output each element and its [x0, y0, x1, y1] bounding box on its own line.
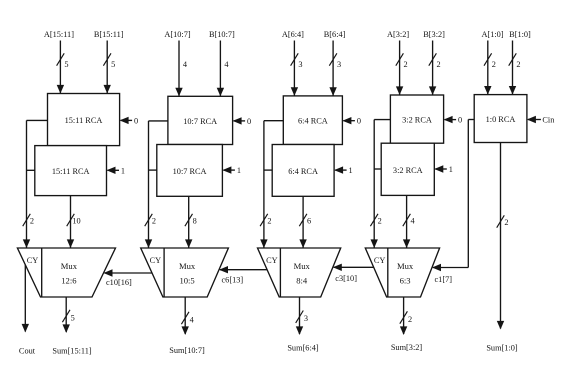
wire sum bundle (4 bits) from RCA bottoms down to Mux M4: [403, 195, 416, 248]
mux M4 "Mux 6:3" with CY section: [365, 248, 439, 297]
constant 1 carry-in arrow into U1b: [107, 166, 126, 175]
wire Sum[1:0] output of RCA U5 (2 bits): [497, 143, 509, 330]
svg-text:5: 5: [64, 60, 68, 69]
wire carry-select c6[13] into Mux M2 right side: [219, 266, 267, 285]
svg-text:B[15:11]: B[15:11]: [94, 30, 124, 39]
svg-text:A[3:2]: A[3:2]: [387, 30, 409, 39]
svg-text:1: 1: [121, 166, 125, 175]
svg-text:c10[16]: c10[16]: [106, 278, 132, 287]
RCA U4a "3:2 RCA" (carry-in 0 branch): [390, 95, 443, 143]
svg-text:2: 2: [516, 60, 520, 69]
node B[10:7] input label (col 2): [209, 30, 235, 39]
svg-text:2: 2: [404, 60, 408, 69]
wire carry-out of U5 (c1[7]) from left edge down toward Mux M4: [468, 120, 474, 268]
svg-text:3: 3: [298, 60, 302, 69]
wire carry bundle (2 bits) from U4a/U4b left edges down to Mux M4 CY input: [370, 120, 390, 248]
svg-text:2: 2: [378, 217, 382, 226]
node B[6:4] input label (col 3): [324, 30, 346, 39]
RCA U1b "15:11 RCA" (carry-in 1 branch): [35, 146, 107, 196]
svg-text:A[10:7]: A[10:7]: [164, 30, 191, 39]
svg-text:12:6: 12:6: [61, 276, 77, 286]
node Sum[15:11] output label: [52, 347, 92, 356]
svg-text:2: 2: [504, 218, 508, 227]
node Sum[10:7] output label: [169, 346, 205, 355]
svg-text:B[6:4]: B[6:4]: [324, 30, 346, 39]
wire sum bundle (6 bits) from RCA bottoms down to Mux M3: [299, 196, 311, 248]
RCA U3b "6:4 RCA" (carry-in 1 branch): [272, 145, 334, 197]
svg-text:A[1:0]: A[1:0]: [481, 30, 503, 39]
svg-text:Mux: Mux: [294, 261, 311, 271]
node A[1:0] input label (col 5): [481, 30, 503, 39]
svg-text:6:4 RCA: 6:4 RCA: [288, 167, 318, 176]
constant 1 carry-in arrow into U2b: [222, 166, 241, 175]
svg-text:Sum[10:7]: Sum[10:7]: [169, 346, 205, 355]
svg-text:Sum[6:4]: Sum[6:4]: [287, 344, 319, 353]
wire carry bundle (2 bits) from U2a/U2b left edges down to Mux M2 CY input: [145, 121, 168, 248]
svg-text:1: 1: [449, 165, 453, 174]
wire A[10:7] into upper RCA, bus width 4: [175, 41, 188, 97]
wire A[6:4] into upper RCA, bus width 3: [291, 41, 303, 96]
svg-text:Mux: Mux: [179, 261, 196, 271]
svg-text:1: 1: [237, 166, 241, 175]
svg-text:2: 2: [437, 60, 441, 69]
svg-text:CY: CY: [266, 256, 278, 265]
wire A[15:11] into upper RCA, bus width 5: [57, 41, 69, 94]
wire B[3:2] into upper RCA, bus width 2: [429, 41, 441, 96]
svg-text:B[10:7]: B[10:7]: [209, 30, 235, 39]
constant 0 carry-in arrow into U4a: [444, 116, 463, 125]
svg-text:0: 0: [247, 117, 251, 126]
svg-text:3:2 RCA: 3:2 RCA: [393, 166, 423, 175]
svg-text:CY: CY: [27, 256, 39, 265]
node B[15:11] input label (col 1): [94, 30, 124, 39]
svg-text:c1[7]: c1[7]: [435, 275, 453, 284]
svg-text:5: 5: [71, 314, 75, 323]
svg-text:Sum[3:2]: Sum[3:2]: [391, 343, 423, 352]
svg-text:B[3:2]: B[3:2]: [423, 30, 445, 39]
wire B[10:7] into upper RCA, bus width 4: [217, 41, 230, 97]
wire carry bundle (2 bits) from U3a/U3b left edges down to Mux M3 CY input: [260, 121, 283, 248]
svg-text:10:7 RCA: 10:7 RCA: [173, 167, 207, 176]
wire Sum[6:4] output of Mux M3 (3 bits): [296, 297, 308, 335]
svg-text:3:2 RCA: 3:2 RCA: [402, 116, 432, 125]
svg-text:15:11 RCA: 15:11 RCA: [65, 116, 103, 125]
svg-text:6:3: 6:3: [400, 276, 411, 286]
svg-text:2: 2: [492, 60, 496, 69]
mux M3 "Mux 8:4" with CY section: [258, 248, 341, 297]
svg-text:Cin: Cin: [542, 116, 555, 125]
RCA U4b "3:2 RCA" (carry-in 1 branch): [381, 143, 434, 195]
constant 0 carry-in arrow into U3a: [342, 117, 361, 126]
svg-text:0: 0: [458, 116, 462, 125]
svg-text:10: 10: [72, 217, 80, 226]
mux M1 "Mux 12:6" with CY section: [17, 248, 115, 297]
svg-text:Sum[1:0]: Sum[1:0]: [486, 344, 518, 353]
RCA U1a "15:11 RCA" (carry-in 0 branch): [48, 94, 120, 146]
node Sum[6:4] output label: [287, 344, 319, 353]
svg-text:1: 1: [349, 166, 353, 175]
svg-text:3: 3: [337, 60, 341, 69]
svg-text:Mux: Mux: [61, 261, 78, 271]
svg-text:Sum[15:11]: Sum[15:11]: [52, 347, 92, 356]
svg-text:CY: CY: [374, 256, 386, 265]
constant 0 carry-in arrow into U1a: [120, 116, 139, 125]
svg-text:5: 5: [111, 60, 115, 69]
wire carry-select c1[7] into Mux M4 right side: [432, 264, 468, 284]
svg-text:0: 0: [357, 117, 361, 126]
wire Sum[15:11] output of Mux M1 (5 bits): [62, 297, 74, 333]
svg-text:Mux: Mux: [397, 261, 414, 271]
svg-text:0: 0: [134, 116, 138, 125]
svg-text:8: 8: [193, 217, 197, 226]
mux M2 "Mux 10:5" with CY section: [141, 248, 229, 297]
svg-text:A[15:11]: A[15:11]: [44, 30, 74, 39]
wire carry bundle (2 bits) from U1a/U1b left edges down to Mux M1 CY input: [23, 120, 48, 248]
wire Sum[3:2] output of Mux M4 (2 bits): [400, 297, 412, 335]
constant 0 carry-in arrow into U2a: [233, 117, 252, 126]
svg-text:2: 2: [30, 217, 34, 226]
node A[6:4] input label (col 3): [282, 30, 304, 39]
RCA U5 "1:0 RCA": [474, 95, 527, 143]
svg-text:4: 4: [224, 60, 229, 69]
node A[10:7] input label (col 2): [164, 30, 191, 39]
RCA U2b "10:7 RCA" (carry-in 1 branch): [157, 145, 223, 197]
node Sum[1:0] output label: [486, 344, 518, 353]
wire sum bundle (10 bits) from RCA bottoms down to Mux M1: [67, 196, 81, 248]
node A[15:11] input label (col 1): [44, 30, 74, 39]
node Cout output label: [19, 347, 36, 356]
wire B[6:4] into upper RCA, bus width 3: [329, 41, 341, 96]
wire Cout from Mux M1 CY output: [22, 265, 29, 333]
node Cin input arrow into RCA U5: [527, 116, 555, 125]
svg-text:6: 6: [307, 217, 311, 226]
svg-text:2: 2: [152, 217, 156, 226]
wire Sum[10:7] output of Mux M2 (4 bits): [181, 297, 194, 335]
svg-text:c3[10]: c3[10]: [335, 274, 357, 283]
constant 1 carry-in arrow into U3b: [334, 166, 353, 175]
svg-text:10:7 RCA: 10:7 RCA: [183, 117, 217, 126]
svg-text:3: 3: [304, 314, 308, 323]
wire sum bundle (8 bits) from RCA bottoms down to Mux M2: [185, 196, 197, 248]
wire B[1:0] into RCA U5, bus width 2: [509, 41, 521, 95]
svg-text:Cout: Cout: [19, 347, 36, 356]
svg-text:CY: CY: [150, 256, 162, 265]
svg-text:8:4: 8:4: [296, 276, 308, 286]
node A[3:2] input label (col 4): [387, 30, 409, 39]
wire carry-select c10[16] into Mux M1 right side: [104, 269, 153, 287]
svg-text:10:5: 10:5: [179, 276, 194, 286]
svg-text:c6[13]: c6[13]: [222, 276, 244, 285]
svg-text:1:0 RCA: 1:0 RCA: [486, 115, 516, 124]
wire B[15:11] into upper RCA, bus width 5: [103, 41, 115, 94]
RCA U3a "6:4 RCA" (carry-in 0 branch): [283, 96, 342, 145]
RCA U2a "10:7 RCA" (carry-in 0 branch): [168, 96, 233, 144]
svg-text:A[6:4]: A[6:4]: [282, 30, 304, 39]
wire A[1:0] into RCA U5, bus width 2: [484, 41, 496, 95]
svg-text:B[1:0]: B[1:0]: [509, 30, 531, 39]
svg-text:15:11 RCA: 15:11 RCA: [52, 167, 90, 176]
node Sum[3:2] output label: [391, 343, 423, 352]
node B[1:0] input label (col 5): [509, 30, 531, 39]
constant 1 carry-in arrow into U4b: [434, 165, 453, 174]
node B[3:2] input label (col 4): [423, 30, 445, 39]
svg-text:4: 4: [183, 60, 188, 69]
wire carry-select c3[10] into Mux M3 right side: [333, 264, 374, 283]
svg-text:6:4 RCA: 6:4 RCA: [298, 117, 328, 126]
svg-text:4: 4: [190, 316, 195, 325]
wire A[3:2] into upper RCA, bus width 2: [396, 41, 408, 96]
svg-text:4: 4: [411, 217, 416, 226]
svg-text:2: 2: [267, 217, 271, 226]
svg-text:2: 2: [408, 315, 412, 324]
